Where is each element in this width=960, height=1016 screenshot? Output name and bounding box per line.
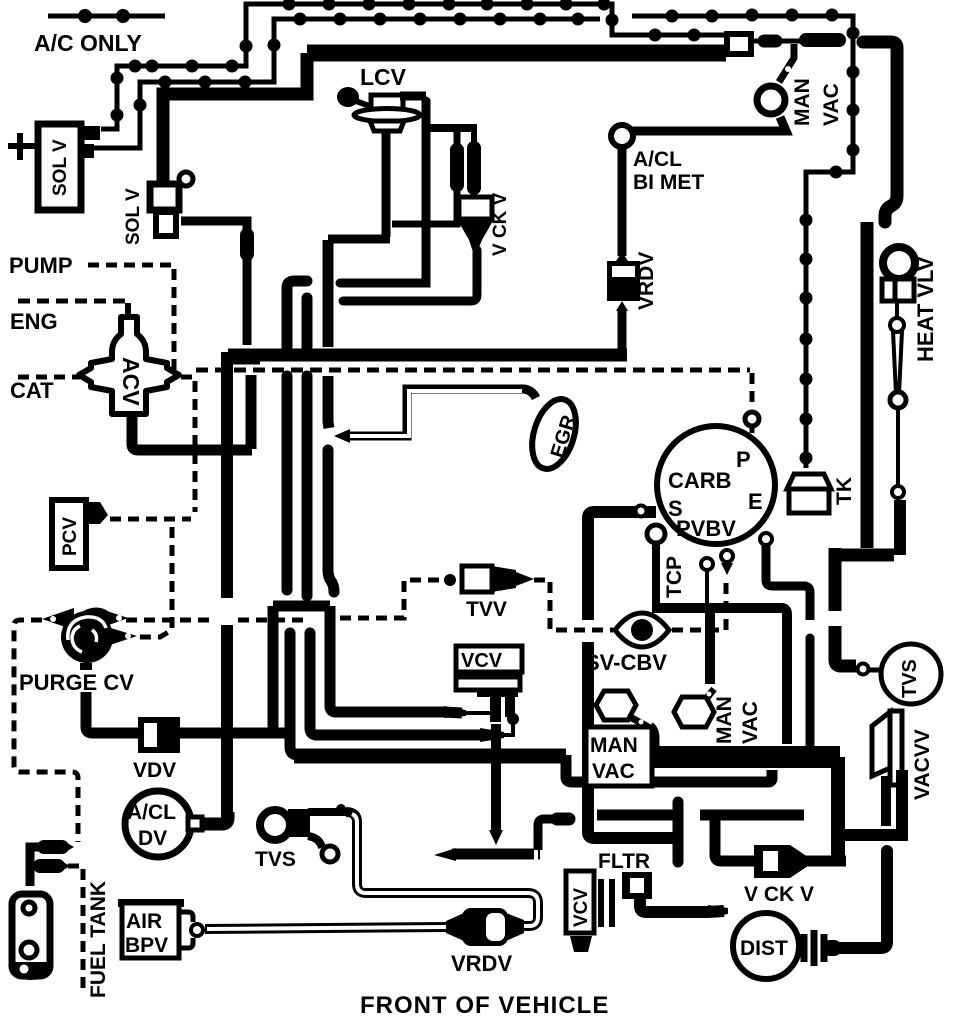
hose x328 resume below EGR tee <box>328 450 334 592</box>
svg-text:FUEL TANK: FUEL TANK <box>87 881 110 998</box>
connector box at end of manifold line <box>727 34 751 54</box>
valve SV-CBV eye <box>585 613 669 675</box>
svg-text:SOL V: SOL V <box>50 139 71 196</box>
valve VRDV (top) <box>607 252 658 311</box>
wire SOL V #2 output to bus <box>181 221 247 345</box>
wire LCV junction to bus tap <box>328 235 390 244</box>
hose bus tap x287 (upper elbow) <box>287 281 307 347</box>
solenoid SOL V #2 <box>123 172 193 245</box>
hose x287 below bus <box>282 376 293 590</box>
hose H2 to VCV dot <box>314 722 513 742</box>
pump PURGE CV <box>19 607 137 695</box>
main vacuum bus (horizontal) <box>228 349 627 362</box>
hose V1 to VDV line <box>268 606 279 734</box>
dashed PCV net <box>110 377 195 637</box>
valve A/CL DV <box>125 791 202 857</box>
canister TK <box>787 474 856 513</box>
svg-text:PCV: PCV <box>60 517 81 556</box>
svg-text:VAC: VAC <box>820 83 843 126</box>
wire bar to hexagon2 <box>705 613 715 684</box>
valve VACVV <box>872 711 934 829</box>
hose H1 to VCV <box>334 702 494 718</box>
tank FUEL TANK <box>12 881 110 998</box>
svg-text:VAC: VAC <box>592 760 635 783</box>
trunk elbow: bus to down trunk <box>233 352 260 365</box>
trunk corner top (down to SOL V branch) <box>163 53 307 182</box>
dashed drop to CARB P <box>745 373 759 433</box>
svg-text:FLTR: FLTR <box>598 850 650 873</box>
wire TCP bar <box>652 608 787 744</box>
svg-text:VAC: VAC <box>739 701 762 744</box>
wire A/CL BI MET to MAN VAC hook <box>632 117 786 131</box>
switch TVS (right) <box>881 644 941 704</box>
svg-text:TVV: TVV <box>466 598 507 621</box>
svg-text:VRDV: VRDV <box>451 951 512 976</box>
valve HEAT VLV <box>882 247 938 498</box>
hose x330 down to H1 <box>330 606 336 712</box>
hose lozenge segments to MAN VAC <box>751 40 839 41</box>
hose FLTR drop from H3 line <box>583 790 594 832</box>
svg-text:E: E <box>748 489 763 514</box>
port pin3 (PVBV dashed) <box>721 550 733 575</box>
wire beaded line L2 (to SOL V and MAN VAC side) <box>60 13 600 149</box>
manifold band (hex1 to trunk) <box>652 746 840 768</box>
svg-text:ENG: ENG <box>10 309 58 334</box>
svg-text:V CK V: V CK V <box>744 883 814 906</box>
hose tapered line below VCV <box>434 819 569 861</box>
svg-text:TVS: TVS <box>899 659 921 698</box>
wire ACV output line <box>132 417 252 450</box>
check valve V CK V (top) <box>457 131 511 256</box>
valve ACV <box>79 303 179 414</box>
svg-text:PVBV: PVBV <box>676 516 736 541</box>
svg-text:PURGE CV: PURGE CV <box>19 670 134 695</box>
svg-text:A/CL: A/CL <box>633 148 682 171</box>
svg-text:TCP: TCP <box>663 556 686 598</box>
wire LCV feed hose (rounded ends) <box>340 101 426 283</box>
thick top manifold bus <box>307 45 726 62</box>
svg-text:MAN: MAN <box>713 696 736 744</box>
svg-text:A/CL: A/CL <box>127 801 176 824</box>
svg-text:DV: DV <box>138 827 167 850</box>
valve TVV <box>444 566 534 621</box>
solenoid SOL V #1 <box>8 124 100 210</box>
wire LCV stem <box>382 131 391 237</box>
junction bar (crossover) <box>273 601 330 612</box>
svg-text:AIR: AIR <box>126 910 162 933</box>
wire VDV output <box>177 728 290 739</box>
wire heat branch to TVS <box>835 548 881 675</box>
svg-text:PUMP: PUMP <box>9 253 73 278</box>
wire VRDV to main bus <box>618 308 627 351</box>
hose VCV left leg drop with arrow <box>489 724 503 845</box>
svg-text:HEAT VLV: HEAT VLV <box>913 256 938 362</box>
svg-text:V CK V: V CK V <box>490 192 511 256</box>
svg-text:VACVV: VACVV <box>911 729 934 800</box>
label PUMP + dashed <box>9 253 174 372</box>
hose bus tap x307 (upper stub) <box>302 298 313 347</box>
svg-text:VCV: VCV <box>571 888 592 927</box>
wire A/CL BI MET down to VRDV <box>618 146 627 256</box>
dashed purge line (PURGE CV to TVV) <box>126 580 444 620</box>
wire trunk to VACVV/DIST branch <box>840 829 908 841</box>
svg-text:TVS: TVS <box>255 848 296 871</box>
svg-text:A/C ONLY: A/C ONLY <box>34 30 142 56</box>
dashed fuel tank lines <box>14 620 83 988</box>
wire drop to MAN VAC port <box>779 44 794 82</box>
heat supply line (top right) <box>830 42 900 555</box>
wire DIST riser <box>830 851 887 948</box>
svg-text:FRONT OF VEHICLE: FRONT OF VEHICLE <box>360 992 609 1016</box>
svg-text:SOL V: SOL V <box>123 188 144 245</box>
long dashed line (P port) <box>196 368 750 373</box>
label ENG + dashed <box>10 301 128 334</box>
hexagon MAN VAC #1 <box>596 691 655 748</box>
trunk vertical (left) <box>221 352 233 818</box>
wire V CK V output <box>343 250 477 301</box>
distributor DIST <box>733 913 834 979</box>
svg-text:DIST: DIST <box>740 937 788 960</box>
hose x307 below bus <box>302 376 313 596</box>
A/CL BI MET ring <box>611 125 704 194</box>
svg-text:CAT: CAT <box>10 378 54 403</box>
wire S line resume down (left of MAN VAC box) <box>588 642 676 838</box>
filter assembly FLTR <box>566 871 728 952</box>
trunk vertical right (x838) <box>831 757 845 862</box>
hose x328 below bus (to EGR tee) <box>328 376 329 428</box>
wire LCV top to junction <box>400 92 426 101</box>
svg-text:VRDV: VRDV <box>635 252 658 310</box>
svg-text:VCV: VCV <box>461 650 503 672</box>
valve VCV (top assembly) <box>456 646 522 725</box>
label box MAN VAC #1 <box>586 727 652 786</box>
legend beaded line A/C ONLY <box>34 9 165 56</box>
valve VDV <box>133 720 177 782</box>
port pin1 (thin keyhole) <box>701 558 713 604</box>
hose V2 (x290) below crossover <box>290 633 298 755</box>
wire PURGE CV to VDV <box>86 692 140 733</box>
wire EGR thin tube <box>334 389 536 443</box>
hexagon MAN VAC #2 <box>674 689 762 744</box>
svg-text:LCV: LCV <box>360 64 407 90</box>
svg-text:MAN: MAN <box>590 734 638 757</box>
circle CARB <box>657 426 775 544</box>
switch TVS (lower left) <box>255 809 338 871</box>
valve VRDV (bottom) <box>451 908 512 976</box>
svg-text:ACV: ACV <box>118 357 144 406</box>
wire beaded line L2b (right part to TK) <box>632 9 860 469</box>
valve AIR BPV <box>118 903 203 958</box>
wire beaded line L1 (A/C line to SOL V) <box>101 0 726 129</box>
svg-text:MAN: MAN <box>791 78 814 126</box>
check valve V CK V (bottom) <box>744 845 846 906</box>
valve PCV <box>52 500 108 568</box>
hose H3 drop and under-box run <box>566 755 772 782</box>
wire CARB S port line <box>588 506 656 621</box>
hose vert x715 to check valve <box>715 820 754 861</box>
svg-text:VDV: VDV <box>133 759 176 782</box>
wire PURGE CV bottom stub <box>80 663 92 670</box>
svg-text:TK: TK <box>833 477 856 505</box>
dashed SV-CBV line <box>534 576 726 630</box>
hose bus tap x328 (from LCV junction) <box>323 240 334 347</box>
MAN VAC port ring (top right) <box>757 78 843 126</box>
wire TVS tube to VRDV <box>308 804 538 941</box>
hose bar_a <box>597 810 676 821</box>
svg-text:SV-CBV: SV-CBV <box>585 650 667 675</box>
svg-text:BPV: BPV <box>125 934 168 957</box>
port pin2 (to TVS branch) <box>760 533 810 745</box>
label CAT + dashed <box>10 377 80 403</box>
valve EGR <box>524 394 583 475</box>
hose H3 main band <box>294 749 566 764</box>
svg-text:P: P <box>736 447 751 472</box>
svg-text:CARB: CARB <box>668 468 732 493</box>
svg-text:BI MET: BI MET <box>633 171 704 194</box>
wire AIR BPV tube to VRDV <box>205 913 464 941</box>
port TCP <box>647 525 686 604</box>
wire A/CL DV to trunk <box>202 812 228 824</box>
wire junction riser (lozenge) <box>392 131 457 224</box>
valve LCV <box>337 64 420 131</box>
hose V3 (x310) below crossover <box>310 633 317 735</box>
hose vert x678 <box>673 802 684 862</box>
wire bus tap x251 <box>246 375 257 449</box>
hose fuel tank fill <box>30 840 74 886</box>
